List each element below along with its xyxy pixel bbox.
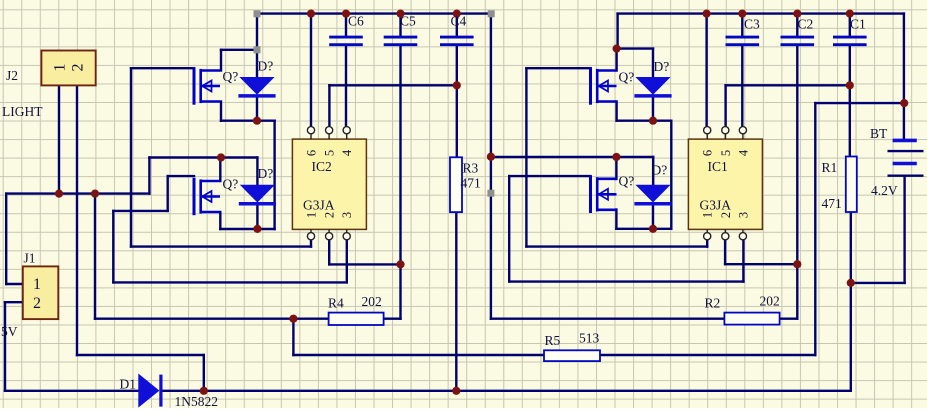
svg-text:6: 6: [305, 150, 319, 156]
svg-text:C3: C3: [744, 17, 760, 32]
svg-text:Q?: Q?: [223, 177, 239, 192]
svg-text:2: 2: [70, 64, 87, 72]
svg-text:4: 4: [340, 149, 354, 156]
svg-text:C1: C1: [850, 17, 866, 32]
svg-text:IC2: IC2: [312, 159, 332, 174]
svg-text:1: 1: [52, 64, 69, 72]
svg-text:D1: D1: [120, 377, 137, 392]
svg-text:D?: D?: [258, 166, 274, 181]
svg-text:LIGHT: LIGHT: [2, 104, 43, 119]
svg-text:R2: R2: [705, 296, 721, 311]
svg-text:R4: R4: [328, 296, 344, 311]
svg-text:471: 471: [461, 176, 481, 191]
svg-text:C2: C2: [798, 17, 814, 32]
svg-text:1: 1: [305, 212, 319, 218]
svg-text:2: 2: [33, 295, 41, 312]
svg-text:Q?: Q?: [223, 69, 239, 84]
svg-text:Q?: Q?: [619, 174, 635, 189]
svg-text:6: 6: [701, 150, 715, 156]
svg-text:2: 2: [719, 212, 733, 218]
svg-text:D?: D?: [258, 59, 274, 74]
svg-text:2: 2: [323, 212, 337, 218]
svg-text:4: 4: [736, 149, 750, 156]
svg-text:R1: R1: [822, 160, 838, 175]
svg-text:D?: D?: [654, 59, 670, 74]
svg-text:J2: J2: [6, 68, 18, 83]
svg-text:BT: BT: [870, 126, 888, 141]
svg-text:5: 5: [323, 150, 337, 156]
svg-text:R3: R3: [463, 161, 479, 176]
svg-text:471: 471: [822, 196, 842, 211]
svg-text:1: 1: [701, 212, 715, 218]
svg-text:202: 202: [362, 294, 382, 309]
svg-text:C4: C4: [451, 14, 467, 29]
svg-text:G3JA: G3JA: [303, 198, 335, 213]
svg-text:R5: R5: [545, 333, 561, 348]
svg-text:3: 3: [736, 212, 750, 218]
svg-text:4.2V: 4.2V: [871, 183, 898, 198]
svg-text:IC1: IC1: [708, 159, 728, 174]
svg-text:G3JA: G3JA: [700, 198, 732, 213]
svg-text:1: 1: [33, 276, 41, 293]
svg-text:5: 5: [719, 150, 733, 156]
svg-text:202: 202: [760, 294, 780, 309]
svg-text:513: 513: [579, 331, 600, 346]
svg-text:C6: C6: [348, 14, 364, 29]
svg-text:1N5822: 1N5822: [175, 394, 219, 408]
svg-text:C5: C5: [400, 14, 416, 29]
svg-text:3: 3: [340, 212, 354, 218]
svg-text:D?: D?: [652, 163, 668, 178]
svg-text:J1: J1: [24, 251, 36, 266]
svg-text:Q?: Q?: [619, 70, 635, 85]
svg-text:5V: 5V: [1, 324, 18, 339]
